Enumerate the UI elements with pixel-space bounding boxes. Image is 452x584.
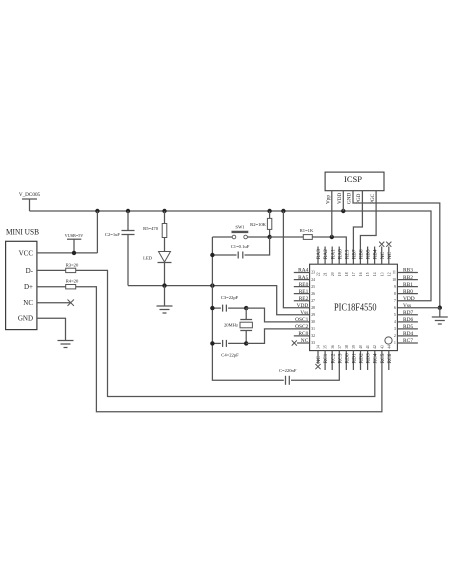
node rail-VCC-USB <box>95 209 99 213</box>
capacitor C2 <box>105 211 135 286</box>
pin left 28 VDD <box>297 303 315 310</box>
wire ground rail <box>128 286 310 315</box>
svg-text:40: 40 <box>359 345 363 349</box>
node gnd-LED <box>162 283 166 287</box>
svg-text:ICSP: ICSP <box>344 175 363 184</box>
pin bottom 40 RD2 <box>359 345 365 370</box>
pin right 2 RD4 <box>394 331 418 338</box>
pin bottom 35 RC1 <box>323 345 329 370</box>
svg-text:RD6: RD6 <box>403 317 413 323</box>
svg-text:LED: LED <box>143 256 153 261</box>
svg-text:VDD: VDD <box>337 193 343 204</box>
pin left 27 RE2 <box>294 296 315 303</box>
svg-text:5: 5 <box>394 313 396 317</box>
pin left 25 RE0 <box>294 282 315 289</box>
LED D1 <box>143 252 171 286</box>
pin bottom 41 RD3 <box>366 345 372 370</box>
svg-text:RB1: RB1 <box>403 282 413 288</box>
pin right 7 VDD <box>394 296 415 303</box>
svg-text:19: 19 <box>338 272 342 276</box>
svg-text:3: 3 <box>394 327 396 331</box>
svg-text:NC: NC <box>23 299 33 307</box>
svg-text:15: 15 <box>366 272 370 276</box>
ground right <box>432 308 448 324</box>
connector MINI USB <box>6 227 40 330</box>
svg-text:39: 39 <box>352 345 356 349</box>
pin bottom 44 RC6 <box>387 345 393 370</box>
svg-text:1: 1 <box>394 341 396 345</box>
wire VCC pin <box>37 211 98 253</box>
pin left 31 OSC2 <box>295 324 315 331</box>
svg-text:Vss: Vss <box>300 310 308 316</box>
svg-text:43: 43 <box>380 345 384 349</box>
wire NC pin <box>37 300 74 306</box>
svg-text:RB7: RB7 <box>352 249 358 259</box>
pin top 17 RB7 <box>352 249 358 276</box>
node rail-R5 <box>162 209 166 213</box>
svg-text:8: 8 <box>394 292 396 296</box>
svg-text:RA5: RA5 <box>298 275 308 281</box>
svg-text:R4=20: R4=20 <box>66 279 79 284</box>
node C4-gnd <box>210 341 214 345</box>
pin VCC label <box>19 249 34 257</box>
node C3-xtal <box>244 306 248 310</box>
svg-text:R2=10K: R2=10K <box>250 222 267 227</box>
resistor R2 <box>250 211 272 237</box>
pin bottom 38 RD0 <box>344 345 350 370</box>
wire ICSP GND <box>353 191 440 308</box>
svg-text:D-: D- <box>26 267 34 275</box>
svg-text:25: 25 <box>311 285 315 289</box>
pin left 32 RC0 <box>294 331 315 338</box>
svg-text:RC0: RC0 <box>298 331 308 337</box>
capacitor C5 220nF <box>279 351 339 385</box>
wire SW1 right <box>247 236 269 238</box>
svg-text:RA2: RA2 <box>323 249 329 259</box>
svg-text:RE3: RE3 <box>344 249 350 259</box>
wire MCLR to R1 <box>270 236 304 238</box>
wire ICSP Vpp <box>331 191 333 237</box>
pin right 4 RD6 <box>394 317 418 324</box>
svg-text:RB6: RB6 <box>359 249 365 259</box>
pin D+ label <box>24 283 33 291</box>
resistor R3 <box>66 262 79 272</box>
svg-text:26: 26 <box>311 292 315 296</box>
node gnd-xtal <box>210 283 214 287</box>
svg-text:11: 11 <box>392 271 396 275</box>
svg-text:RE0: RE0 <box>299 282 309 288</box>
wire VDD28 <box>283 211 309 308</box>
svg-text:RD3: RD3 <box>366 353 372 363</box>
svg-text:18: 18 <box>345 272 349 276</box>
wire ICSP PGC <box>360 191 376 265</box>
ground USB <box>58 341 74 348</box>
pin bottom 42 RC4 <box>373 345 379 363</box>
pin top 15 RB5 <box>366 247 372 277</box>
svg-text:RE1: RE1 <box>299 289 309 295</box>
svg-text:38: 38 <box>345 345 349 349</box>
pin bottom 39 RD1 <box>352 345 358 370</box>
pin right 6 Vss <box>394 303 411 310</box>
svg-text:RC7: RC7 <box>403 338 413 344</box>
svg-text:24: 24 <box>311 278 315 282</box>
svg-text:MINI USB: MINI USB <box>6 227 39 237</box>
svg-text:14: 14 <box>373 272 377 276</box>
wire D- route <box>76 270 375 396</box>
svg-text:6: 6 <box>394 306 396 310</box>
node Vss6-gnd <box>438 306 442 310</box>
svg-text:C2=1uF: C2=1uF <box>105 232 121 237</box>
node rail-C2 <box>126 209 130 213</box>
svg-text:33: 33 <box>311 341 315 345</box>
pin ICSP VDD label <box>337 193 343 204</box>
svg-text:30: 30 <box>311 320 315 324</box>
capacitor C3 <box>212 295 246 312</box>
pin top 22 RA3 <box>316 247 322 277</box>
node C4-xtal <box>244 341 248 345</box>
pin right 3 RD5 <box>394 324 418 331</box>
svg-text:RB2: RB2 <box>403 275 413 281</box>
svg-text:23: 23 <box>311 271 315 275</box>
svg-text:RB0: RB0 <box>403 289 413 295</box>
capacitor C4 <box>212 340 246 358</box>
wire R1 to MCLR pin <box>312 237 346 264</box>
pin left 23 RA4 <box>294 268 315 275</box>
svg-text:RD5: RD5 <box>403 324 413 330</box>
crystal Y1 20MHz <box>224 308 252 343</box>
svg-text:OSC2: OSC2 <box>295 324 308 330</box>
svg-text:C1=0.1uF: C1=0.1uF <box>231 244 250 249</box>
wire D+ route <box>76 287 382 412</box>
svg-text:VUSB=5V: VUSB=5V <box>65 233 84 238</box>
svg-text:NC: NC <box>301 338 309 344</box>
node C1-gnd <box>210 253 214 257</box>
pin left 29 Vss <box>300 310 315 317</box>
pin right 8 RB0 <box>394 289 418 296</box>
svg-text:D+: D+ <box>24 283 33 291</box>
capacitor C1 <box>212 237 269 259</box>
svg-text:9: 9 <box>394 285 396 289</box>
pin bottom 36 RC2 <box>330 345 336 370</box>
svg-text:NC: NC <box>387 251 393 259</box>
power flag V_DC005 <box>19 192 41 211</box>
svg-text:NC: NC <box>316 356 322 364</box>
svg-text:GND: GND <box>18 315 33 323</box>
svg-text:RC6: RC6 <box>387 353 393 363</box>
svg-text:22: 22 <box>317 272 321 276</box>
power flag VUSB=5V <box>65 233 84 253</box>
pin bottom 34 NC <box>315 345 322 369</box>
node rail-ICSP-VDD <box>341 209 345 213</box>
svg-text:RB3: RB3 <box>403 268 413 274</box>
svg-text:7: 7 <box>394 299 396 303</box>
svg-text:32: 32 <box>311 334 315 338</box>
svg-text:R5=470: R5=470 <box>143 226 159 231</box>
svg-text:RB4: RB4 <box>373 249 379 259</box>
pin NC label <box>23 299 33 307</box>
svg-text:37: 37 <box>338 345 342 349</box>
svg-text:RD7: RD7 <box>403 310 413 316</box>
svg-text:42: 42 <box>373 345 377 349</box>
svg-text:R1=1K: R1=1K <box>300 228 314 233</box>
pin top 18 RE3 <box>344 249 350 276</box>
pin ICSP PGD label <box>356 193 362 204</box>
pin right 10 RB2 <box>392 275 418 282</box>
pin top 20 RA1 <box>330 247 336 277</box>
pin ICSP GND label <box>347 193 353 204</box>
connector ICSP <box>325 172 384 191</box>
pin right 1 RC7 <box>394 338 418 345</box>
IC U1 PIC18F4550 <box>310 264 398 350</box>
svg-text:RE2: RE2 <box>299 296 309 302</box>
node C3-gnd <box>210 306 214 310</box>
svg-text:41: 41 <box>366 345 370 349</box>
pin bottom 37 RC3 <box>337 345 343 363</box>
svg-text:16: 16 <box>359 272 363 276</box>
pin top 16 RB6 <box>359 249 365 276</box>
svg-text:Vss: Vss <box>403 303 411 309</box>
ground mid <box>157 286 173 313</box>
svg-text:C3=22pF: C3=22pF <box>221 295 239 300</box>
svg-text:RD1: RD1 <box>352 353 358 363</box>
svg-text:4: 4 <box>394 320 396 324</box>
pin top 21 RA2 <box>323 247 329 277</box>
wire GND pin <box>37 318 66 340</box>
wire right Vss stub <box>397 307 439 309</box>
svg-text:V_DC005: V_DC005 <box>19 192 41 198</box>
svg-text:20: 20 <box>331 272 335 276</box>
node rail-VDD28 <box>281 209 285 213</box>
wire OSC1 <box>246 308 309 322</box>
svg-text:20MHz: 20MHz <box>224 323 238 328</box>
pin ICSP Vpp label <box>326 195 332 204</box>
svg-text:36: 36 <box>331 345 335 349</box>
svg-text:RD2: RD2 <box>359 353 365 363</box>
svg-text:31: 31 <box>311 327 315 331</box>
resistor R5 <box>143 211 167 252</box>
svg-text:34: 34 <box>317 345 321 349</box>
svg-text:RD4: RD4 <box>403 331 413 337</box>
svg-text:RC4: RC4 <box>373 353 379 363</box>
svg-text:RC1: RC1 <box>323 353 329 363</box>
wire D+ to R4 <box>37 286 66 288</box>
svg-text:C=220nF: C=220nF <box>279 368 297 373</box>
svg-text:10: 10 <box>392 278 396 282</box>
pin ICSP PGC label <box>370 193 376 204</box>
node MCLR-Vpp <box>330 235 334 239</box>
pin right 11 RB3 <box>392 268 418 275</box>
svg-text:12: 12 <box>387 272 391 276</box>
resistor R4 <box>66 279 79 289</box>
svg-text:RA0: RA0 <box>337 249 343 259</box>
pin left 26 RE1 <box>294 289 315 296</box>
svg-text:29: 29 <box>311 313 315 317</box>
pin right 9 RB1 <box>394 282 418 289</box>
svg-text:C4=22pF: C4=22pF <box>221 353 239 358</box>
pin D- label <box>26 267 34 275</box>
svg-text:13: 13 <box>380 272 384 276</box>
wire ICSP VDD <box>342 191 344 211</box>
pin top 12 NC <box>386 242 393 276</box>
svg-text:GND: GND <box>347 193 353 204</box>
svg-text:27: 27 <box>311 299 315 303</box>
svg-text:35: 35 <box>324 345 328 349</box>
svg-text:RD0: RD0 <box>344 353 350 363</box>
pin GND label <box>18 315 33 323</box>
svg-text:RB5: RB5 <box>366 249 372 259</box>
pin right 5 RD7 <box>394 310 418 317</box>
svg-text:OSC1: OSC1 <box>295 317 308 323</box>
pin top 14 RB4 <box>373 247 379 277</box>
node rail-R2 <box>267 209 271 213</box>
svg-text:RA1: RA1 <box>330 249 336 259</box>
svg-text:NC: NC <box>380 251 386 259</box>
svg-text:VCC: VCC <box>19 249 34 257</box>
svg-text:RA3: RA3 <box>316 249 322 259</box>
wire SW1 left <box>212 236 232 238</box>
pin top 19 RA0 <box>337 247 343 277</box>
pin bottom 43 RC5 <box>380 345 386 363</box>
pin left 30 OSC1 <box>295 317 315 324</box>
svg-text:VDD: VDD <box>403 296 415 302</box>
svg-text:2: 2 <box>394 334 396 338</box>
pin left 24 RA5 <box>294 275 315 282</box>
svg-text:21: 21 <box>324 272 328 276</box>
wire VCC rail <box>30 211 432 301</box>
svg-text:44: 44 <box>387 345 391 349</box>
pin top 13 NC <box>379 242 386 276</box>
svg-text:17: 17 <box>352 272 356 276</box>
switch SW1 <box>232 225 249 239</box>
node MCLR-R2 <box>267 235 271 239</box>
wire D- to R3 <box>37 269 66 271</box>
pin left 33 NC <box>292 338 315 345</box>
wire OSC2 <box>246 329 309 344</box>
svg-text:RC5: RC5 <box>380 353 386 363</box>
svg-text:SW1: SW1 <box>235 225 245 230</box>
wire ground branch <box>212 237 283 380</box>
svg-text:Vpp: Vpp <box>326 195 332 204</box>
svg-text:R3=20: R3=20 <box>66 262 79 267</box>
svg-text:PIC18F4550: PIC18F4550 <box>334 302 377 313</box>
svg-text:RC2: RC2 <box>330 353 336 363</box>
svg-text:RC3: RC3 <box>337 353 343 363</box>
resistor R1 <box>300 228 314 239</box>
svg-text:RA4: RA4 <box>298 268 308 274</box>
node VCC-VUSB <box>72 251 76 255</box>
svg-text:28: 28 <box>311 306 315 310</box>
wire ICSP PGD <box>353 191 362 265</box>
